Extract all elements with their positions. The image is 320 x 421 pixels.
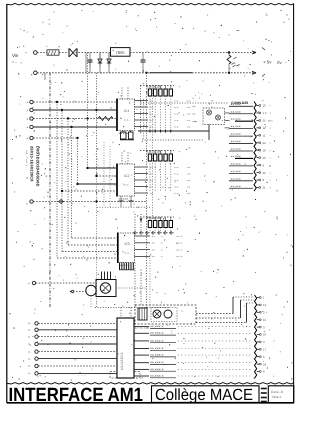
svg-text:+ 5v: + 5v [263,60,272,65]
svg-text:××: ×× [152,255,156,259]
svg-text:D0D1D2D3D4D5D6D: D0D1D2D3D4D5D6D [36,146,41,187]
svg-text:××: ×× [150,125,154,129]
svg-text:14: 14 [263,303,267,307]
svg-text:×·×: ×·× [174,172,179,176]
svg-text:∼: ∼ [247,67,250,71]
svg-text:××.×××: ××.××× [231,140,241,144]
svg-text:Conv.–S: Conv.–S [271,390,283,394]
svg-text:15: 15 [263,318,267,322]
svg-text:·××: ·×× [186,172,191,176]
svg-text:××.×××: ××.××× [231,147,241,151]
svg-text:26013-1E60230C8: 26013-1E60230C8 [30,146,35,182]
svg-text:10: 10 [263,148,267,152]
svg-text:··×: ··× [177,150,181,154]
svg-text:·: · [25,199,26,204]
svg-text:CONN.D25: CONN.D25 [231,101,248,105]
svg-text:·××: ·×× [186,118,191,122]
svg-text:1 2: 1 2 [263,111,267,115]
svg-text:Collège MACE: Collège MACE [155,386,253,404]
svg-text:21: 21 [263,186,267,190]
svg-text:IC2: IC2 [124,174,129,178]
svg-text:××.×××·×: ××.×××·× [150,361,164,365]
svg-text:××: ×× [150,99,154,103]
svg-text:·×: ·× [160,234,163,238]
svg-text:17: 17 [263,348,267,352]
svg-text:25: 25 [263,119,267,123]
svg-text:××: ×× [152,248,156,252]
svg-text:· · ·: · · · [78,373,86,379]
svg-text:ULN2803: ULN2803 [120,352,124,370]
svg-text:·×: ·× [26,117,29,121]
svg-text:××: ×× [150,112,154,116]
svg-text:×·×: ×·× [174,118,179,122]
svg-text:×·×·: ×·×· [124,118,130,122]
svg-text:×·×: ×·× [174,105,179,109]
svg-text:×·: ×· [28,350,31,354]
svg-text:×·×·: ×·×· [124,251,130,255]
svg-text:13: 13 [263,104,267,108]
svg-text:××: ×× [150,178,154,182]
svg-text:Vin: Vin [12,53,19,58]
svg-text:×·×·: ×·×· [124,183,130,187]
svg-text:××.×××·×: ××.×××·× [150,367,164,371]
svg-text:××: ×× [150,165,154,169]
svg-text:·××: ·×× [186,165,191,169]
svg-text:××.×××: ××.××× [231,169,241,173]
svg-text:×·: ×· [181,309,184,313]
svg-text:××: ×× [152,241,156,245]
svg-text:18: 18 [263,362,267,366]
svg-text:≈: ≈ [46,45,48,49]
svg-text:23: 23 [263,156,267,160]
svg-text:××.×××: ××.××× [231,184,241,188]
svg-text:××.×××: ××.××× [231,177,241,181]
svg-text:·×: ·× [160,248,163,252]
svg-text:7805: 7805 [116,50,126,55]
svg-text:×·: ×· [28,357,31,361]
svg-text:·×: ·× [160,241,163,245]
svg-text:×+: ×+ [192,105,196,109]
svg-text:××.×××: ××.××× [231,154,241,158]
svg-text:·×: ·× [26,100,29,104]
svg-text:×: × [70,43,72,47]
svg-text:××: ×× [150,191,154,195]
svg-text:·××: ·×× [186,185,191,189]
svg-text:Vers.1: Vers.1 [272,395,281,399]
svg-text:×·×: ×·× [174,191,179,195]
svg-text:R.R 8x10k: R.R 8x10k [146,216,162,220]
svg-text:+: + [25,51,27,55]
svg-text:××.×××·×: ××.×××·× [150,353,164,357]
svg-text:×: × [133,210,135,214]
svg-text:××.×××: ××.××× [231,132,241,136]
svg-text:·: · [170,373,171,378]
svg-text:××: ×× [152,234,156,238]
svg-text:××: ×× [150,185,154,189]
svg-text:×·×: ×·× [174,99,179,103]
svg-text:IC3: IC3 [125,242,130,246]
svg-text:×·: ×· [28,322,31,326]
svg-text:·×: ·× [26,125,29,129]
svg-text:·××: ·×× [186,112,191,116]
svg-text:0v: 0v [277,60,282,65]
svg-text:·××: ·×× [186,178,191,182]
svg-text:×·: ×· [28,372,31,376]
svg-text:·×: ·× [26,108,29,112]
svg-text:·×: ·× [160,255,163,259]
svg-text:×× ×·: ×× ×· [176,234,183,238]
svg-text:·××: ·×× [186,99,191,103]
svg-text:×+: ×+ [192,120,196,124]
svg-text:×·: ×· [28,328,31,332]
svg-text:R.R 8x10k: R.R 8x10k [146,150,162,154]
svg-text:××: ×× [150,172,154,176]
svg-text:·××: ·×× [186,105,191,109]
svg-text:∼: ∼ [268,328,271,332]
svg-text:·××: ·×× [186,191,191,195]
svg-text:11: 11 [263,134,266,138]
svg-text:22: 22 [263,171,267,175]
svg-text:×× ×·: ×× ×· [176,248,183,252]
svg-text:××: ×× [150,118,154,122]
svg-text:××.×××·×: ××.×××·× [150,374,164,378]
svg-text:≈ –: ≈ – [12,60,17,64]
svg-text:×·×: ×·× [174,185,179,189]
svg-text:××.×××: ××.××× [231,125,241,129]
svg-text:×·×: ×·× [174,112,179,116]
svg-text:×·×: ×·× [174,125,179,129]
svg-text:×·: ×· [28,335,31,339]
svg-text:×·: ×· [28,364,31,368]
svg-text:××.×××: ××.××× [231,117,241,121]
svg-text:16: 16 [263,333,267,337]
svg-text:··×: ··× [177,85,181,89]
svg-text:∼: ∼ [247,47,250,51]
svg-text:∿∼: ∿∼ [268,119,274,123]
svg-text:·×: ·× [27,282,30,286]
svg-text:××.×××: ××.××× [231,110,241,114]
svg-text:R.R 8x10k: R.R 8x10k [146,85,162,89]
svg-text:××.×××·×: ××.×××·× [150,325,164,329]
svg-text:×× ×·: ×× ×· [176,255,183,259]
svg-text:·××: ·×× [186,125,191,129]
svg-text:×+: ×+ [192,112,196,116]
svg-text:IC1: IC1 [124,109,129,113]
svg-text:××.×××: ××.××× [231,162,241,166]
svg-text:××.×××·×: ××.×××·× [150,346,164,350]
svg-text:24: 24 [263,141,267,145]
svg-text:··×: ··× [177,216,181,220]
svg-text:××.×××·×: ××.×××·× [150,331,164,335]
svg-text:××.×××·×: ××.×××·× [150,339,164,343]
svg-text:×·×: ×·× [174,165,179,169]
svg-text:×·: ×· [28,342,31,346]
svg-text:××: ×× [150,105,154,109]
svg-text:INTERFACE AM1: INTERFACE AM1 [9,385,144,406]
svg-text:∼: ∼ [18,102,21,106]
svg-text:·×: ·× [26,136,29,140]
svg-text:×·×: ×·× [174,178,179,182]
